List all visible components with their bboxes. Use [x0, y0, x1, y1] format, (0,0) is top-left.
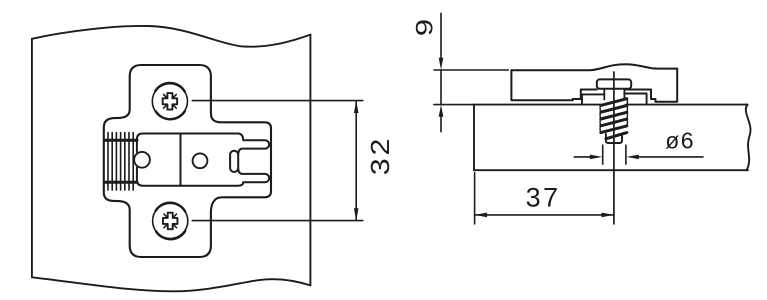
plate side profile top edge with bump	[511, 64, 677, 70]
dim37 dimension line	[475, 214, 614, 216]
screw S1 pozidriv diagonal ticks	[164, 95, 177, 109]
dim37 arrow left	[475, 213, 487, 218]
dim32 top extension line	[192, 100, 362, 102]
dia6 right leader tail	[639, 156, 703, 158]
plate side profile left edge and stepped bottom	[511, 70, 596, 100]
wire board (side view) top surface left of screw	[474, 104, 601, 106]
svg-text:9: 9	[411, 19, 438, 36]
serration flange upper edge	[105, 139, 138, 142]
dim9 bottom extension line	[434, 104, 474, 106]
dim32 arrow up	[354, 101, 359, 113]
screw S2 pozidriv diagonal ticks	[164, 214, 177, 228]
svg-text:32: 32	[365, 136, 394, 176]
screw S1 thick bottom arc	[156, 111, 185, 119]
screw S2 pozidriv cross	[163, 213, 178, 230]
wire board (side view) wavy break right edge	[746, 105, 751, 171]
euro screw thread coil bands	[601, 99, 627, 139]
wire board (side view) top surface right of screw	[626, 104, 748, 106]
dim37 arrow right	[602, 213, 614, 218]
dim9 arrow down	[439, 58, 444, 70]
dim32 bottom extension line	[192, 220, 362, 222]
dia6 left tick	[602, 145, 604, 164]
mounting plate outline (cross shape, top view)	[104, 65, 271, 257]
screw centerline	[613, 72, 615, 224]
inner seat outline with fork cutout	[137, 134, 269, 186]
wire board (side view) bottom edge	[474, 169, 748, 171]
screw S2 (bottom) outer head circle	[153, 203, 188, 238]
dim32 dimension line	[355, 101, 357, 221]
svg-text:37: 37	[526, 183, 561, 213]
serration teeth (hatched flange)	[108, 133, 133, 191]
euro screw thread left returns	[599, 105, 602, 132]
euro screw thread right returns	[626, 99, 629, 126]
plate side profile left inner wall	[582, 94, 604, 103]
wire board (side view) left edge	[473, 105, 475, 171]
wire board (top view) right edge	[309, 35, 311, 285]
svg-text:ø6: ø6	[665, 128, 695, 154]
dia6 right tick	[625, 145, 627, 164]
hole right	[193, 153, 208, 168]
dim9 middle segment	[440, 70, 442, 105]
dia6 arrow right	[590, 155, 602, 160]
fork pill right edge	[237, 155, 239, 168]
hole left	[134, 152, 150, 168]
wire board (top view) bottom break line	[32, 277, 311, 291]
euro screw head	[597, 79, 631, 88]
plate side profile right boss top line	[624, 69, 677, 102]
wire board (top view) left edge	[31, 39, 33, 277]
euro screw tip	[606, 134, 622, 143]
euro screw shank sides	[604, 89, 624, 100]
screw S1 (top) outer head circle	[152, 84, 187, 119]
dim9 arrow up	[439, 105, 444, 117]
screw S2 thick bottom arc	[156, 231, 185, 239]
dim9 top extension line	[434, 69, 508, 71]
screw S1 pozidriv cross	[163, 93, 178, 110]
dia6 left arrow tail	[574, 156, 590, 158]
screw S1 thick top arc	[155, 83, 185, 92]
dim9 lower tail	[440, 116, 442, 132]
divider line in seat	[180, 134, 182, 186]
dim32 arrow down	[354, 208, 359, 220]
dim37 left extension line	[474, 173, 476, 224]
dia6 arrow left	[626, 155, 638, 160]
serration flange lower edge	[105, 181, 138, 184]
wire board (top view) top break line	[32, 26, 311, 47]
dim9 upper dimension line	[440, 13, 442, 60]
screw S2 thick top arc	[156, 203, 186, 212]
plate side profile right inner wall	[624, 94, 646, 104]
